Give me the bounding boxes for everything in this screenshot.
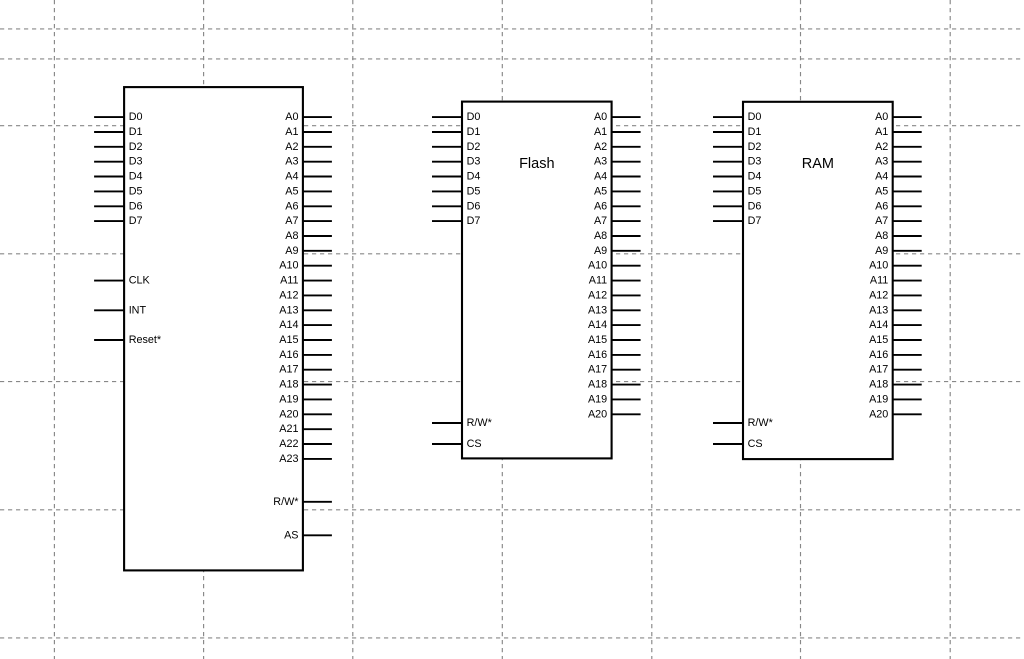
pin A0 of U1 (right) with wire stub and label bbox=[303, 116, 332, 118]
pin D0 of U3 (left) with wire stub and label bbox=[713, 116, 743, 118]
pin A7 of U3 (right) with wire stub and label bbox=[893, 220, 922, 222]
svg-text:A10: A10 bbox=[588, 260, 607, 272]
svg-text:A19: A19 bbox=[279, 393, 298, 405]
svg-text:A6: A6 bbox=[875, 200, 888, 212]
pin D5 of U3 (left) with wire stub and label bbox=[713, 190, 743, 192]
svg-text:A21: A21 bbox=[279, 423, 298, 435]
pin A18 of U3 (right) with wire stub and label bbox=[893, 384, 922, 386]
pin A9 of U2 (right) with wire stub and label bbox=[612, 250, 641, 252]
svg-text:A16: A16 bbox=[869, 349, 888, 361]
pin D4 of U1 (left) with wire stub and label bbox=[94, 176, 124, 178]
pin A21 of U1 (right) with wire stub and label bbox=[303, 428, 332, 430]
svg-text:A14: A14 bbox=[869, 319, 888, 331]
svg-text:A12: A12 bbox=[588, 289, 607, 301]
pin D6 of U1 (left) with wire stub and label bbox=[94, 205, 124, 207]
svg-text:A22: A22 bbox=[279, 438, 298, 450]
svg-text:D0: D0 bbox=[748, 111, 762, 123]
pin A1 of U3 (right) with wire stub and label bbox=[893, 131, 922, 133]
svg-text:A20: A20 bbox=[279, 408, 298, 420]
svg-text:Flash: Flash bbox=[519, 156, 554, 172]
svg-text:AS: AS bbox=[284, 529, 298, 541]
pin D1 of U2 (left) with wire stub and label bbox=[432, 131, 462, 133]
pin A4 of U2 (right) with wire stub and label bbox=[612, 176, 641, 178]
pin A11 of U2 (right) with wire stub and label bbox=[612, 280, 641, 282]
svg-text:A5: A5 bbox=[875, 185, 888, 197]
svg-text:D3: D3 bbox=[467, 156, 481, 168]
pin A19 of U1 (right) with wire stub and label bbox=[303, 398, 332, 400]
pin A15 of U1 (right) with wire stub and label bbox=[303, 339, 332, 341]
pin A12 of U1 (right) with wire stub and label bbox=[303, 294, 332, 296]
svg-text:A17: A17 bbox=[869, 364, 888, 376]
svg-text:A13: A13 bbox=[869, 304, 888, 316]
svg-text:RAM: RAM bbox=[802, 156, 834, 172]
pin A11 of U3 (right) with wire stub and label bbox=[893, 280, 922, 282]
svg-text:A6: A6 bbox=[285, 200, 298, 212]
svg-text:D1: D1 bbox=[748, 126, 762, 138]
pin INT of U1 (left) with wire stub and label bbox=[94, 309, 124, 311]
svg-text:D0: D0 bbox=[129, 111, 143, 123]
pin D5 of U2 (left) with wire stub and label bbox=[432, 190, 462, 192]
pin A23 of U1 (right) with wire stub and label bbox=[303, 458, 332, 460]
pin A2 of U3 (right) with wire stub and label bbox=[893, 146, 922, 148]
pin AS of U1 (right) with wire stub and label bbox=[303, 534, 332, 536]
pin A1 of U2 (right) with wire stub and label bbox=[612, 131, 641, 133]
pin A14 of U3 (right) with wire stub and label bbox=[893, 324, 922, 326]
svg-text:A17: A17 bbox=[588, 364, 607, 376]
svg-text:A13: A13 bbox=[588, 304, 607, 316]
pin D7 of U3 (left) with wire stub and label bbox=[713, 220, 743, 222]
svg-text:A1: A1 bbox=[594, 126, 607, 138]
pin A17 of U3 (right) with wire stub and label bbox=[893, 369, 922, 371]
svg-text:A0: A0 bbox=[594, 111, 607, 123]
svg-text:A0: A0 bbox=[285, 111, 298, 123]
pin A0 of U2 (right) with wire stub and label bbox=[612, 116, 641, 118]
pin A5 of U1 (right) with wire stub and label bbox=[303, 190, 332, 192]
svg-text:A5: A5 bbox=[285, 185, 298, 197]
pin A17 of U2 (right) with wire stub and label bbox=[612, 369, 641, 371]
svg-text:A1: A1 bbox=[285, 126, 298, 138]
pin CS of U3 (left) with wire stub and label bbox=[713, 443, 743, 445]
svg-text:A16: A16 bbox=[279, 349, 298, 361]
svg-text:A19: A19 bbox=[588, 393, 607, 405]
svg-text:A15: A15 bbox=[279, 334, 298, 346]
pin CLK of U1 (left) with wire stub and label bbox=[94, 280, 124, 282]
pin Reset* of U1 (left) with wire stub and label bbox=[94, 339, 124, 341]
svg-text:D7: D7 bbox=[467, 215, 481, 227]
pin A22 of U1 (right) with wire stub and label bbox=[303, 443, 332, 445]
svg-text:A9: A9 bbox=[594, 245, 607, 257]
pin A15 of U2 (right) with wire stub and label bbox=[612, 339, 641, 341]
pin A19 of U2 (right) with wire stub and label bbox=[612, 398, 641, 400]
svg-text:D4: D4 bbox=[129, 171, 143, 183]
pin A15 of U3 (right) with wire stub and label bbox=[893, 339, 922, 341]
IC U3 (RAM memory) body bbox=[743, 102, 893, 459]
svg-text:A18: A18 bbox=[588, 379, 607, 391]
svg-text:A2: A2 bbox=[875, 141, 888, 153]
svg-text:D4: D4 bbox=[467, 171, 481, 183]
svg-text:A20: A20 bbox=[869, 408, 888, 420]
pin A16 of U2 (right) with wire stub and label bbox=[612, 354, 641, 356]
svg-text:D2: D2 bbox=[129, 141, 143, 153]
svg-text:A1: A1 bbox=[875, 126, 888, 138]
svg-text:A5: A5 bbox=[594, 185, 607, 197]
svg-text:A8: A8 bbox=[875, 230, 888, 242]
pin D2 of U1 (left) with wire stub and label bbox=[94, 146, 124, 148]
svg-text:A12: A12 bbox=[279, 289, 298, 301]
svg-text:A11: A11 bbox=[870, 275, 888, 287]
svg-text:A10: A10 bbox=[279, 260, 298, 272]
pin A18 of U2 (right) with wire stub and label bbox=[612, 384, 641, 386]
pin A14 of U1 (right) with wire stub and label bbox=[303, 324, 332, 326]
svg-text:A2: A2 bbox=[285, 141, 298, 153]
pin D1 of U3 (left) with wire stub and label bbox=[713, 131, 743, 133]
pin A2 of U2 (right) with wire stub and label bbox=[612, 146, 641, 148]
pin A3 of U3 (right) with wire stub and label bbox=[893, 161, 922, 163]
svg-text:D1: D1 bbox=[129, 126, 143, 138]
svg-text:A11: A11 bbox=[280, 275, 298, 287]
pin CS of U2 (left) with wire stub and label bbox=[432, 443, 462, 445]
svg-text:A23: A23 bbox=[279, 453, 298, 465]
pin A12 of U3 (right) with wire stub and label bbox=[893, 294, 922, 296]
pin D2 of U3 (left) with wire stub and label bbox=[713, 146, 743, 148]
IC U2 (Flash memory) body bbox=[462, 102, 612, 459]
pin D4 of U2 (left) with wire stub and label bbox=[432, 176, 462, 178]
svg-text:D4: D4 bbox=[748, 171, 762, 183]
svg-text:A3: A3 bbox=[594, 156, 607, 168]
svg-text:A14: A14 bbox=[588, 319, 607, 331]
svg-text:A9: A9 bbox=[875, 245, 888, 257]
pin A8 of U1 (right) with wire stub and label bbox=[303, 235, 332, 237]
svg-text:A10: A10 bbox=[869, 260, 888, 272]
svg-text:D2: D2 bbox=[467, 141, 481, 153]
svg-text:A3: A3 bbox=[285, 156, 298, 168]
pin A6 of U3 (right) with wire stub and label bbox=[893, 205, 922, 207]
svg-text:D6: D6 bbox=[467, 200, 481, 212]
svg-text:A8: A8 bbox=[594, 230, 607, 242]
pin A8 of U2 (right) with wire stub and label bbox=[612, 235, 641, 237]
pin A16 of U3 (right) with wire stub and label bbox=[893, 354, 922, 356]
svg-text:A7: A7 bbox=[285, 215, 298, 227]
svg-text:D3: D3 bbox=[748, 156, 762, 168]
pin A6 of U2 (right) with wire stub and label bbox=[612, 205, 641, 207]
svg-text:A19: A19 bbox=[869, 393, 888, 405]
pin A11 of U1 (right) with wire stub and label bbox=[303, 280, 332, 282]
svg-text:A14: A14 bbox=[279, 319, 298, 331]
svg-text:CS: CS bbox=[467, 438, 482, 450]
svg-text:A20: A20 bbox=[588, 408, 607, 420]
svg-text:A4: A4 bbox=[875, 171, 888, 183]
svg-text:A16: A16 bbox=[588, 349, 607, 361]
pin D6 of U2 (left) with wire stub and label bbox=[432, 205, 462, 207]
pin A2 of U1 (right) with wire stub and label bbox=[303, 146, 332, 148]
svg-text:D5: D5 bbox=[748, 185, 762, 197]
svg-text:D0: D0 bbox=[467, 111, 481, 123]
svg-text:CS: CS bbox=[748, 438, 763, 450]
pin A8 of U3 (right) with wire stub and label bbox=[893, 235, 922, 237]
svg-text:A4: A4 bbox=[594, 171, 607, 183]
svg-text:A6: A6 bbox=[594, 200, 607, 212]
pin A19 of U3 (right) with wire stub and label bbox=[893, 398, 922, 400]
pin A6 of U1 (right) with wire stub and label bbox=[303, 205, 332, 207]
pin D4 of U3 (left) with wire stub and label bbox=[713, 176, 743, 178]
svg-text:D6: D6 bbox=[748, 200, 762, 212]
svg-text:A15: A15 bbox=[588, 334, 607, 346]
svg-text:D5: D5 bbox=[129, 185, 143, 197]
svg-text:A9: A9 bbox=[285, 245, 298, 257]
svg-text:D3: D3 bbox=[129, 156, 143, 168]
pin A14 of U2 (right) with wire stub and label bbox=[612, 324, 641, 326]
svg-text:D7: D7 bbox=[748, 215, 762, 227]
pin A3 of U1 (right) with wire stub and label bbox=[303, 161, 332, 163]
svg-text:A7: A7 bbox=[594, 215, 607, 227]
pin A13 of U3 (right) with wire stub and label bbox=[893, 309, 922, 311]
pin A16 of U1 (right) with wire stub and label bbox=[303, 354, 332, 356]
pin D5 of U1 (left) with wire stub and label bbox=[94, 190, 124, 192]
svg-text:A8: A8 bbox=[285, 230, 298, 242]
pin D0 of U2 (left) with wire stub and label bbox=[432, 116, 462, 118]
svg-text:CLK: CLK bbox=[129, 275, 151, 287]
pin A20 of U3 (right) with wire stub and label bbox=[893, 413, 922, 415]
pin D3 of U3 (left) with wire stub and label bbox=[713, 161, 743, 163]
pin R/W* of U2 (left) with wire stub and label bbox=[432, 422, 462, 424]
svg-text:D6: D6 bbox=[129, 200, 143, 212]
pin A4 of U3 (right) with wire stub and label bbox=[893, 176, 922, 178]
pin D3 of U1 (left) with wire stub and label bbox=[94, 161, 124, 163]
pin D6 of U3 (left) with wire stub and label bbox=[713, 205, 743, 207]
pin A12 of U2 (right) with wire stub and label bbox=[612, 294, 641, 296]
svg-text:A17: A17 bbox=[279, 364, 298, 376]
pin A10 of U3 (right) with wire stub and label bbox=[893, 265, 922, 267]
pin R/W* of U1 (right) with wire stub and label bbox=[303, 501, 332, 503]
svg-text:A18: A18 bbox=[279, 379, 298, 391]
svg-text:A7: A7 bbox=[875, 215, 888, 227]
pin A5 of U2 (right) with wire stub and label bbox=[612, 190, 641, 192]
svg-text:A13: A13 bbox=[279, 304, 298, 316]
pin A17 of U1 (right) with wire stub and label bbox=[303, 369, 332, 371]
svg-text:A18: A18 bbox=[869, 379, 888, 391]
svg-text:R/W*: R/W* bbox=[273, 496, 299, 508]
IC U1 (CPU) body bbox=[124, 87, 303, 570]
pin D7 of U1 (left) with wire stub and label bbox=[94, 220, 124, 222]
pin R/W* of U3 (left) with wire stub and label bbox=[713, 422, 743, 424]
svg-text:A3: A3 bbox=[875, 156, 888, 168]
pin A7 of U1 (right) with wire stub and label bbox=[303, 220, 332, 222]
pin D0 of U1 (left) with wire stub and label bbox=[94, 116, 124, 118]
pin A13 of U1 (right) with wire stub and label bbox=[303, 309, 332, 311]
pin A3 of U2 (right) with wire stub and label bbox=[612, 161, 641, 163]
pin A7 of U2 (right) with wire stub and label bbox=[612, 220, 641, 222]
svg-text:D1: D1 bbox=[467, 126, 481, 138]
pin A5 of U3 (right) with wire stub and label bbox=[893, 190, 922, 192]
pin A9 of U1 (right) with wire stub and label bbox=[303, 250, 332, 252]
svg-text:R/W*: R/W* bbox=[467, 417, 493, 429]
svg-text:A12: A12 bbox=[869, 289, 888, 301]
pin D7 of U2 (left) with wire stub and label bbox=[432, 220, 462, 222]
pin A10 of U2 (right) with wire stub and label bbox=[612, 265, 641, 267]
svg-text:A2: A2 bbox=[594, 141, 607, 153]
pin D3 of U2 (left) with wire stub and label bbox=[432, 161, 462, 163]
pin A20 of U2 (right) with wire stub and label bbox=[612, 413, 641, 415]
pin A1 of U1 (right) with wire stub and label bbox=[303, 131, 332, 133]
svg-text:D2: D2 bbox=[748, 141, 762, 153]
pin D2 of U2 (left) with wire stub and label bbox=[432, 146, 462, 148]
svg-text:D7: D7 bbox=[129, 215, 143, 227]
svg-text:A4: A4 bbox=[285, 171, 298, 183]
svg-text:INT: INT bbox=[129, 304, 147, 316]
svg-text:Reset*: Reset* bbox=[129, 334, 162, 346]
pin A13 of U2 (right) with wire stub and label bbox=[612, 309, 641, 311]
svg-text:R/W*: R/W* bbox=[748, 417, 774, 429]
pin A10 of U1 (right) with wire stub and label bbox=[303, 265, 332, 267]
svg-text:A11: A11 bbox=[589, 275, 607, 287]
pin D1 of U1 (left) with wire stub and label bbox=[94, 131, 124, 133]
pin A4 of U1 (right) with wire stub and label bbox=[303, 176, 332, 178]
svg-text:A0: A0 bbox=[875, 111, 888, 123]
svg-text:D5: D5 bbox=[467, 185, 481, 197]
pin A18 of U1 (right) with wire stub and label bbox=[303, 384, 332, 386]
svg-text:A15: A15 bbox=[869, 334, 888, 346]
pin A20 of U1 (right) with wire stub and label bbox=[303, 413, 332, 415]
pin A0 of U3 (right) with wire stub and label bbox=[893, 116, 922, 118]
pin A9 of U3 (right) with wire stub and label bbox=[893, 250, 922, 252]
